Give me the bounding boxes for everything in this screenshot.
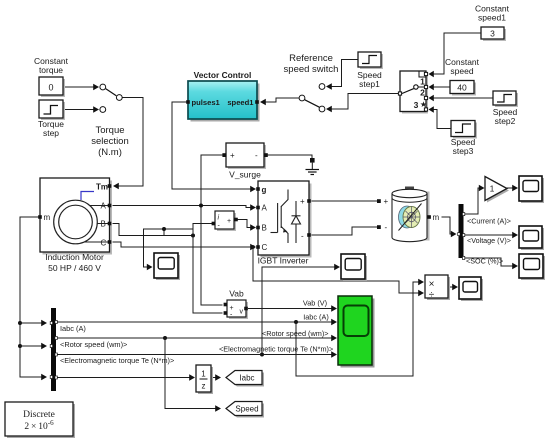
- scope current: [519, 176, 544, 203]
- wire node B up to current measurement: [193, 224, 212, 236]
- label Electromagnetic torque left: [60, 356, 174, 365]
- powergui block Discrete 2e-6: [5, 402, 75, 438]
- svg-text:B: B: [262, 224, 267, 233]
- svg-text:A: A: [262, 204, 268, 213]
- unit delay block 1/z: [196, 365, 213, 394]
- constant block Constant speed1 value 3: [481, 27, 506, 41]
- goto tag Speed: [226, 402, 264, 418]
- label IGBT Inverter: [258, 256, 309, 266]
- svg-text:speed1: speed1: [227, 98, 254, 107]
- svg-text:Vector Control: Vector Control: [194, 70, 252, 80]
- ground symbol near V_surge: [306, 158, 320, 175]
- svg-text:÷: ÷: [429, 290, 435, 301]
- svg-text:×: ×: [429, 279, 435, 290]
- label Rotor speed near scope: [262, 329, 329, 338]
- wire battery m to bus selector: [442, 217, 457, 237]
- wire Iabc signal to green scope: [56, 319, 337, 325]
- label Vector Control: [194, 70, 252, 80]
- wire tap down to motor scope: [144, 229, 153, 270]
- manual switch Torque selection: [100, 84, 122, 112]
- wire m bus into selector port 1: [20, 320, 47, 326]
- svg-text:-: -: [255, 151, 258, 160]
- wire node B down to Vab minus: [193, 236, 222, 314]
- manual switch Reference speed switch: [299, 84, 325, 112]
- wire motor A to IGBT A: [113, 204, 256, 211]
- IGBT inverter block: [256, 181, 311, 258]
- goto tag Iabc: [226, 371, 264, 387]
- label Constant torque: [34, 56, 69, 75]
- wire Vab measurement to green scope: [248, 305, 337, 311]
- svg-text:pulses1: pulses1: [192, 98, 221, 107]
- svg-text:selection: selection: [91, 136, 129, 147]
- wire bus voltage to voltage scope: [464, 232, 519, 238]
- wire reference switch common to Vector Control speed1: [260, 98, 299, 105]
- wire node phase A vertical to V_surge plus and Vab plus: [201, 155, 224, 305]
- divide block: [425, 275, 450, 301]
- bus selector motor m: [50, 308, 57, 391]
- step source Speed step1: [358, 52, 383, 69]
- label Voltage V: [467, 236, 511, 245]
- svg-text:Vab (V): Vab (V): [303, 299, 327, 308]
- svg-text:+: +: [384, 197, 389, 206]
- label V_surge: [229, 170, 261, 180]
- wire Iabc raw to unit delay: [56, 374, 195, 380]
- label Vab title: [229, 289, 244, 299]
- svg-text:C: C: [101, 239, 107, 248]
- voltage measurement Vab: [224, 300, 248, 319]
- wire Speed step2 to multiport input 3: [429, 95, 494, 101]
- current measurement i block: [212, 211, 238, 231]
- svg-text:C: C: [262, 243, 268, 252]
- svg-text:Tm: Tm: [96, 183, 108, 192]
- label Torque step: [38, 119, 64, 138]
- bus selector battery m: [458, 204, 465, 259]
- label Speed step2: [493, 107, 518, 126]
- svg-text:m: m: [433, 213, 440, 222]
- svg-text:<SOC (%)>: <SOC (%)>: [466, 257, 503, 266]
- label Rotor speed left: [60, 340, 127, 349]
- label Vab V near scope: [303, 299, 327, 308]
- scope after divide: [459, 277, 483, 301]
- svg-text:v: v: [240, 309, 244, 316]
- battery block: [377, 187, 431, 242]
- step source Speed step3: [451, 121, 477, 139]
- wire torque branch up to inverter scope: [260, 264, 340, 357]
- svg-text:z: z: [202, 382, 206, 391]
- wire Constant speed1 to multiport input 1: [429, 33, 482, 77]
- wire Constant torque to switch: [63, 84, 99, 90]
- wire IGBT minus to battery minus: [309, 227, 377, 235]
- svg-text:Iabc (A): Iabc (A): [303, 313, 329, 322]
- svg-text:Reference: Reference: [289, 53, 333, 64]
- label Reference speed switch: [284, 53, 339, 75]
- label battery plus minus m: [384, 197, 440, 232]
- wire Torque selection switch to motor Tm: [113, 98, 143, 190]
- induction motor block: [38, 178, 112, 255]
- label Induction Motor 50 HP / 460 V: [45, 252, 104, 273]
- svg-text:IGBT Inverter: IGBT Inverter: [258, 256, 309, 266]
- svg-text:speed: speed: [450, 66, 473, 76]
- svg-text:+: +: [227, 218, 231, 225]
- label SOC percent: [466, 257, 503, 266]
- svg-text:<Voltage (V)>: <Voltage (V)>: [467, 236, 511, 245]
- wire Torque step to switch: [63, 106, 99, 112]
- svg-text:3: 3: [490, 29, 495, 39]
- wire rotor speed branch to Speed goto: [165, 338, 221, 412]
- wire bus SOC to SOC scope: [464, 258, 519, 269]
- svg-text:Torque: Torque: [95, 125, 124, 136]
- wire Constant speed to multiport input 2: [429, 84, 451, 90]
- svg-text:step2: step2: [495, 116, 516, 126]
- svg-text:A: A: [101, 202, 107, 211]
- label Electromagnetic torque near scope: [219, 345, 333, 354]
- svg-text:1: 1: [490, 184, 495, 194]
- constant block Constant torque value 0: [39, 77, 65, 97]
- multiport switch: [398, 71, 428, 114]
- scope SOC: [519, 254, 545, 280]
- constant block Constant speed value 40: [450, 81, 476, 96]
- wire gain to current scope: [507, 185, 518, 191]
- wire V_surge minus to ground: [266, 155, 312, 158]
- wire IGBT plus to battery plus: [309, 200, 377, 202]
- svg-text:m: m: [44, 213, 51, 222]
- svg-text:(N.m): (N.m): [98, 147, 122, 158]
- wire Speed step3 to multiport default input: [429, 106, 452, 128]
- label Current A: [467, 217, 511, 226]
- svg-text:step: step: [43, 128, 59, 138]
- svg-text:speed1: speed1: [478, 13, 506, 23]
- wire unit delay to Iabc goto: [211, 374, 221, 380]
- svg-text:40: 40: [457, 83, 467, 93]
- svg-text:<Current (A)>: <Current (A)>: [467, 217, 511, 226]
- subsystem Vector Control: [186, 81, 259, 122]
- wire Speed step1 to reference switch up contact: [326, 60, 358, 90]
- step source Speed step2: [493, 91, 518, 107]
- wire m bus into selector port 3: [20, 374, 47, 380]
- svg-text:<Electromagnetic torque Te (N*: <Electromagnetic torque Te (N*m)>: [60, 356, 174, 365]
- wire rotor speed signal to green scope: [56, 335, 337, 341]
- wire m bus into selector port 2: [20, 343, 47, 349]
- svg-text:Induction Motor: Induction Motor: [45, 252, 104, 262]
- svg-text:g: g: [262, 186, 267, 195]
- svg-text:0: 0: [48, 83, 53, 93]
- wire motor C to IGBT C: [113, 242, 256, 250]
- label Speed step3: [451, 137, 476, 156]
- svg-text:step1: step1: [359, 79, 380, 89]
- wire motor m bus down left side: [18, 217, 40, 377]
- svg-text:50 HP / 460 V: 50 HP / 460 V: [48, 263, 101, 273]
- label Iabc A left: [60, 324, 86, 333]
- svg-text:-: -: [385, 223, 388, 232]
- svg-text:Iabc (A): Iabc (A): [60, 324, 86, 333]
- wire current measurement out to IGBT B: [236, 220, 256, 231]
- wire multiport switch output to reference switch down contact: [326, 94, 400, 113]
- label Constant speed1: [475, 4, 510, 23]
- wire node C branch to divide block: [253, 247, 424, 296]
- svg-text:<Rotor speed (wm)>: <Rotor speed (wm)>: [262, 329, 329, 338]
- wire bus current to gain: [464, 185, 485, 214]
- label Iabc A near scope: [303, 313, 329, 322]
- svg-text:V_surge: V_surge: [229, 170, 261, 180]
- svg-text:3: 3: [414, 100, 419, 110]
- wire Iabc branch to divide numerator: [296, 279, 424, 376]
- svg-text:1: 1: [201, 370, 206, 379]
- svg-text:step3: step3: [453, 146, 474, 156]
- scope near inverter: [341, 254, 367, 281]
- svg-text:+: +: [230, 151, 235, 160]
- step source Torque step: [39, 100, 65, 120]
- svg-text:speed switch: speed switch: [284, 64, 339, 75]
- green scope block: [338, 296, 375, 368]
- svg-text:Speed: Speed: [235, 405, 258, 414]
- svg-text:-: -: [301, 232, 304, 241]
- svg-text:<Electromagnetic torque Te (N*: <Electromagnetic torque Te (N*m)>: [219, 345, 333, 354]
- wire divide to scope4: [448, 284, 458, 290]
- wire scope tap on phase B: [144, 227, 194, 236]
- svg-text:B: B: [101, 220, 106, 229]
- label Torque selection (N.m): [91, 125, 129, 158]
- svg-text:+: +: [300, 197, 305, 206]
- svg-text:Vab: Vab: [229, 289, 244, 299]
- wire motor B lower run: [113, 224, 195, 238]
- wire Vector Control pulses1 to IGBT gate g: [172, 102, 256, 192]
- label Constant speed: [445, 57, 480, 76]
- svg-text:torque: torque: [39, 65, 63, 75]
- label Speed step1: [357, 70, 382, 89]
- scope near motor: [154, 253, 180, 280]
- gain block value 1: [485, 177, 509, 203]
- svg-text:Iabc: Iabc: [239, 374, 254, 383]
- svg-text:<Rotor speed (wm)>: <Rotor speed (wm)>: [60, 340, 127, 349]
- voltage measurement V_surge: [222, 143, 267, 169]
- wire electromagnetic torque signal to green scope: [56, 351, 337, 357]
- scope voltage: [519, 226, 544, 250]
